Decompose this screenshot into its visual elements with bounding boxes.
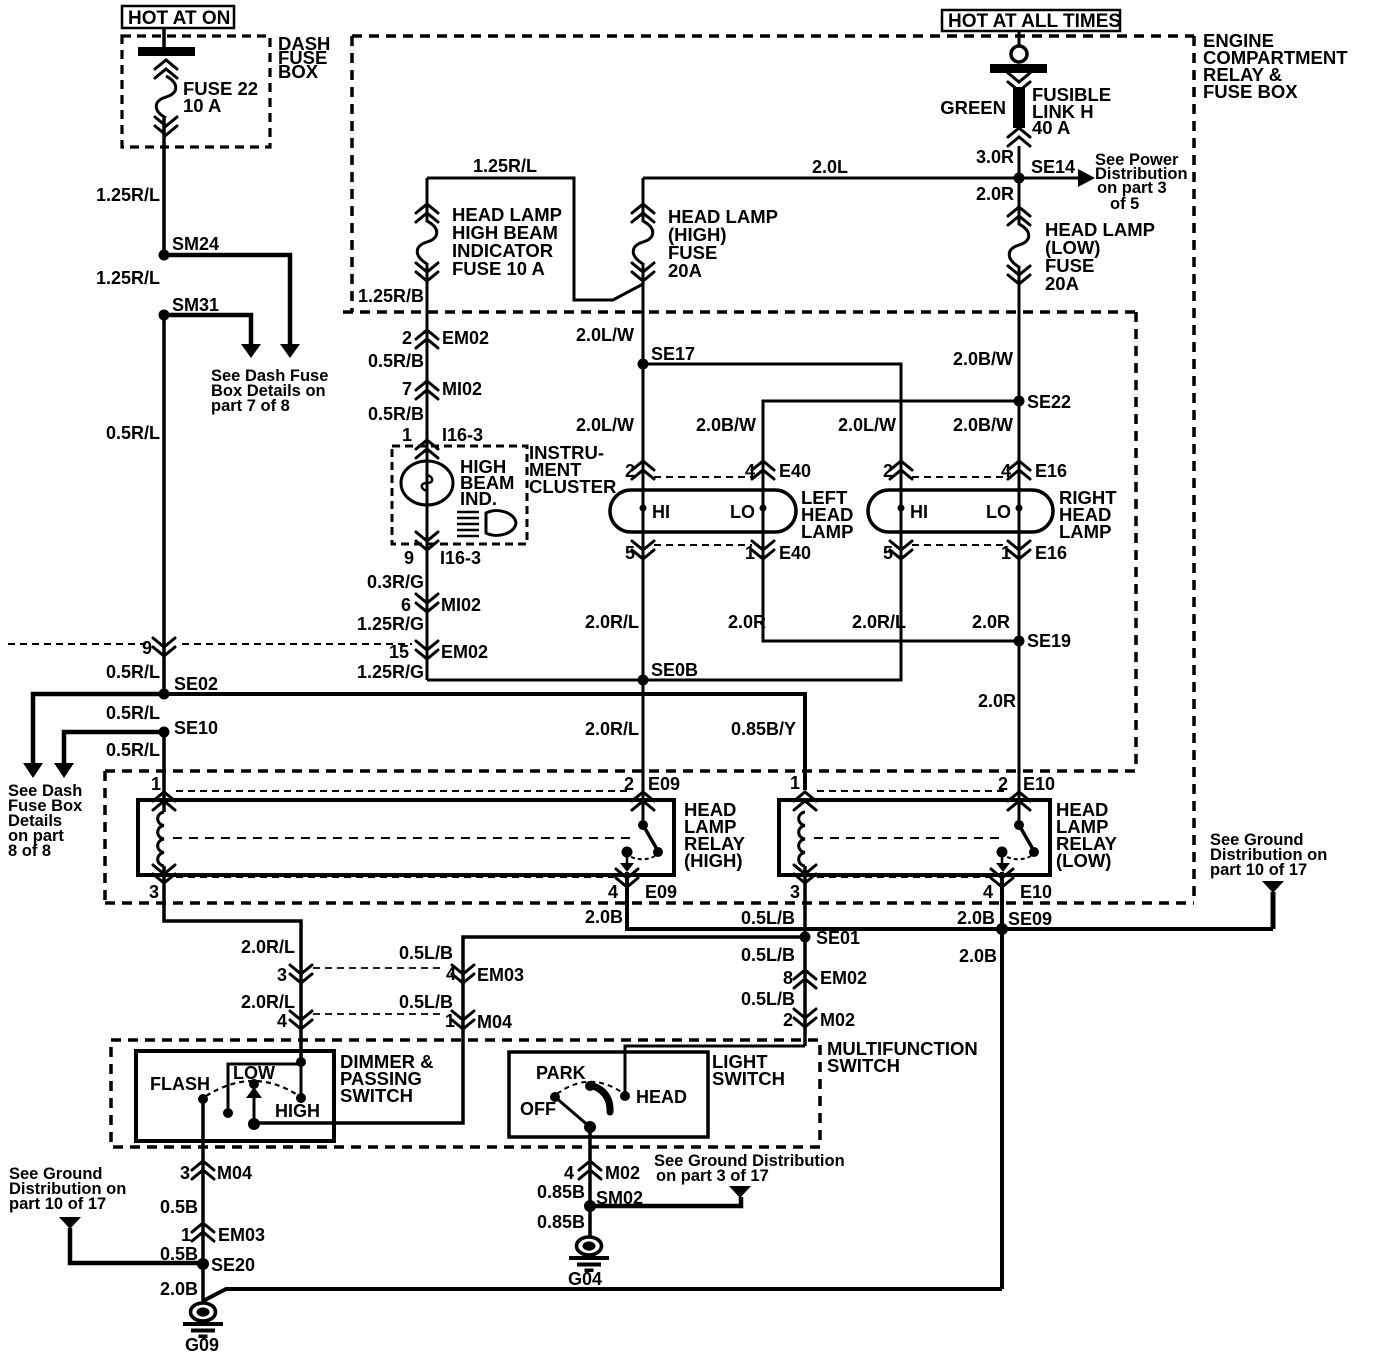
connector EM03 pin 4 — [446, 964, 524, 985]
svg-text:0.5R/B: 0.5R/B — [368, 351, 424, 371]
wire 2.0B E10 pin4 down through SE09 to bottom rail — [1000, 872, 1004, 1289]
svg-text:6: 6 — [401, 595, 411, 615]
node SE17 — [638, 359, 649, 370]
svg-text:1.25R/L: 1.25R/L — [96, 268, 160, 288]
wire from HOT AT ALL TIMES — [1018, 31, 1021, 46]
svg-text:MI02: MI02 — [441, 595, 481, 615]
svg-text:2.0B/W: 2.0B/W — [953, 349, 1013, 369]
svg-text:3.0R: 3.0R — [976, 147, 1014, 167]
arrow to ground distribution (right) — [1262, 881, 1284, 929]
svg-text:LAMP: LAMP — [801, 521, 853, 542]
head lamp indicator icon — [457, 511, 516, 536]
svg-text:0.5R/B: 0.5R/B — [368, 404, 424, 424]
svg-text:EM03: EM03 — [477, 965, 524, 985]
dash fuse box (dashed) — [122, 36, 270, 147]
svg-text:SE14: SE14 — [1031, 157, 1075, 177]
svg-text:E16: E16 — [1035, 543, 1067, 563]
note see power distribution part 3 of 5 — [1095, 151, 1188, 213]
svg-text:E09: E09 — [648, 774, 680, 794]
instrument cluster box (dashed) — [392, 446, 527, 544]
node SE02 — [159, 689, 170, 700]
wire left lamp LO return to SE19 — [763, 401, 1019, 641]
power tag HOT AT ON — [122, 6, 234, 29]
wire SM24 branch arrow — [164, 255, 300, 358]
dimmer wiper arm with arrow — [246, 1079, 262, 1130]
svg-text:SE02: SE02 — [174, 674, 218, 694]
svg-text:SE20: SE20 — [211, 1255, 255, 1275]
wire SE01 rail to dimmer feed — [255, 937, 805, 1123]
svg-text:3: 3 — [180, 1163, 190, 1183]
node SE19 — [1014, 636, 1025, 647]
label LEFT HEAD LAMP — [801, 487, 853, 542]
label FUSE 22 10 A — [183, 78, 258, 116]
connector link dashed E10 top — [817, 790, 1006, 792]
svg-text:M02: M02 — [820, 1010, 855, 1030]
wire FLASH contact to ground connector — [201, 1099, 205, 1302]
svg-text:0.5R/L: 0.5R/L — [106, 423, 160, 443]
svg-text:20A: 20A — [1045, 273, 1079, 294]
connector link dashed E40 top — [654, 476, 752, 478]
relay LOW box — [779, 800, 1050, 875]
svg-text:E16: E16 — [1035, 461, 1067, 481]
svg-text:2.0L/W: 2.0L/W — [838, 415, 896, 435]
node SE01 — [800, 932, 811, 943]
svg-text:SM24: SM24 — [172, 234, 219, 254]
fuse: head lamp (high) fuse 20A — [632, 178, 654, 364]
svg-text:HIGH: HIGH — [275, 1101, 320, 1121]
svg-text:5: 5 — [625, 543, 635, 563]
svg-text:E10: E10 — [1023, 774, 1055, 794]
svg-text:2.0R/L: 2.0R/L — [241, 937, 295, 957]
multifunction switch box (dashed) — [111, 1040, 820, 1147]
wire 3.0R link to SE14 — [1018, 146, 1021, 178]
connector link dashed M04 — [313, 1013, 444, 1015]
svg-text:SWITCH: SWITCH — [340, 1085, 413, 1106]
connector E09 pin 2 — [624, 774, 680, 810]
svg-text:SE09: SE09 — [1008, 909, 1052, 929]
node SM31 — [159, 310, 170, 321]
svg-text:SE01: SE01 — [816, 928, 860, 948]
svg-text:I16-3: I16-3 — [442, 425, 483, 445]
connector E40 pin 1 — [745, 541, 811, 563]
wire SE17 to right lamp HI — [643, 364, 901, 461]
label DASH FUSE BOX — [278, 33, 330, 82]
left head lamp body — [610, 490, 796, 532]
contact FLASH — [198, 1094, 208, 1104]
svg-text:M02: M02 — [605, 1163, 640, 1183]
relay LOW switch contacts — [996, 820, 1039, 872]
wire SE10 left branch arrow — [54, 732, 164, 778]
connector E16 pin 5 — [883, 541, 912, 563]
bus bar — [990, 64, 1047, 73]
svg-text:4: 4 — [983, 882, 993, 902]
wire SE02 left branch arrow — [23, 694, 164, 778]
svg-text:1.25R/G: 1.25R/G — [357, 662, 424, 682]
svg-text:SE0B: SE0B — [651, 660, 698, 680]
svg-text:IND.: IND. — [460, 488, 497, 509]
connector link dashed E16 bottom — [912, 544, 1008, 546]
connector EM02 pin 15 — [389, 641, 488, 662]
connector E10 pin 1 — [790, 773, 816, 810]
wire SE22 to left lamp LO — [763, 401, 1019, 461]
dimmer internal wiring — [223, 1057, 306, 1118]
fuse F22 symbol — [155, 60, 177, 135]
svg-text:0.5L/B: 0.5L/B — [399, 943, 453, 963]
fusible link H element — [1008, 73, 1030, 146]
labels FLASH LOW HIGH — [150, 1063, 320, 1121]
svg-text:4: 4 — [608, 882, 618, 902]
svg-text:1: 1 — [181, 1225, 191, 1245]
labels wire sizes below lamps — [585, 612, 1010, 632]
svg-text:4: 4 — [564, 1163, 574, 1183]
high beam indicator bulb — [401, 461, 453, 505]
svg-text:CLUSTER: CLUSTER — [529, 476, 616, 497]
wire SM02 to ground arrow — [590, 1186, 751, 1206]
svg-text:3: 3 — [277, 965, 287, 985]
light switch dashed arc — [557, 1082, 623, 1094]
svg-text:2.0R/L: 2.0R/L — [852, 612, 906, 632]
svg-text:0.85B: 0.85B — [537, 1212, 585, 1232]
bottom 2.0B rail with jog — [203, 1289, 1002, 1301]
connector link dashed EM03 — [313, 967, 444, 969]
svg-text:0.3R/G: 0.3R/G — [367, 572, 424, 592]
wire M02 pin2 into light switch HEAD — [625, 1046, 805, 1093]
power tag HOT AT ALL TIMES — [942, 10, 1121, 32]
svg-text:of 5: of 5 — [1110, 195, 1139, 213]
svg-text:EM02: EM02 — [442, 328, 489, 348]
connector I16-3 pin 1 — [402, 425, 483, 458]
svg-text:M04: M04 — [477, 1012, 512, 1032]
svg-text:I16-3: I16-3 — [440, 548, 481, 568]
svg-text:5: 5 — [883, 543, 893, 563]
svg-text:2.0B: 2.0B — [959, 946, 997, 966]
arrow from ground distribution (left) — [59, 1217, 203, 1263]
svg-text:8: 8 — [783, 968, 793, 988]
svg-text:G09: G09 — [185, 1335, 219, 1355]
connector link dashed E10 bottom — [817, 876, 990, 878]
engine compartment relay & fuse box (dashed outline) — [105, 36, 1194, 903]
connector link dashed E40 bottom — [654, 544, 752, 546]
labels wire sizes above lamps — [576, 415, 1013, 435]
svg-text:OFF: OFF — [520, 1099, 556, 1119]
wire 2.0L rail — [643, 177, 1019, 180]
svg-text:PARK: PARK — [536, 1063, 586, 1083]
wire 1.25R/B to connector EM02 pin 2 — [426, 312, 429, 680]
wire right lamp LO feed — [1018, 401, 1021, 820]
svg-text:0.5R/L: 0.5R/L — [106, 703, 160, 723]
svg-text:part 10 of 17: part 10 of 17 — [9, 1195, 106, 1213]
connector E40 pin 2 — [625, 461, 654, 481]
connector M04 pin 3 — [180, 1161, 252, 1183]
connector E10 pin 2 — [998, 774, 1055, 810]
svg-text:EM02: EM02 — [441, 642, 488, 662]
svg-text:9: 9 — [404, 548, 414, 568]
svg-text:E40: E40 — [779, 543, 811, 563]
svg-text:2.0L/W: 2.0L/W — [576, 415, 634, 435]
wire 1.25R/L fusebox to SM24 — [162, 118, 166, 252]
svg-text:40 A: 40 A — [1032, 117, 1070, 138]
fuse: head lamp (low) fuse 20A — [1008, 178, 1030, 401]
svg-text:SWITCH: SWITCH — [712, 1068, 785, 1089]
connector E16 pin 4 — [1001, 461, 1067, 481]
light switch box — [509, 1052, 708, 1137]
svg-text:0.5L/B: 0.5L/B — [741, 989, 795, 1009]
connector M02 pin 4 — [564, 1161, 640, 1183]
node SE10 — [159, 727, 170, 738]
svg-text:SE10: SE10 — [174, 718, 218, 738]
svg-text:FUSE 10 A: FUSE 10 A — [452, 258, 545, 279]
relay LOW internal dashed link — [814, 837, 1006, 839]
svg-text:1.25R/L: 1.25R/L — [96, 185, 160, 205]
label FUSIBLE LINK H 40 A — [1032, 84, 1111, 138]
svg-text:0.85B: 0.85B — [537, 1182, 585, 1202]
svg-text:2.0B: 2.0B — [957, 908, 995, 928]
svg-text:part 10 of 17: part 10 of 17 — [1210, 861, 1307, 879]
connector boundary dashed line — [8, 643, 412, 645]
svg-text:2.0B: 2.0B — [160, 1279, 198, 1299]
svg-text:LAMP: LAMP — [1059, 521, 1111, 542]
connector link dashed E09 top — [176, 790, 630, 792]
connector link dashed E16 top — [912, 476, 1008, 478]
dimmer wiper dashed arc — [206, 1081, 299, 1096]
svg-text:1: 1 — [790, 773, 800, 793]
svg-text:SE17: SE17 — [651, 344, 695, 364]
connector EM02 pin 8 — [783, 968, 867, 988]
svg-text:2.0R: 2.0R — [976, 184, 1014, 204]
svg-text:2.0B/W: 2.0B/W — [953, 415, 1013, 435]
svg-text:2: 2 — [883, 461, 893, 481]
note see dash fuse box details part 8 of 8 — [8, 782, 83, 860]
svg-text:1.25R/B: 1.25R/B — [358, 286, 424, 306]
svg-text:9: 9 — [142, 638, 152, 658]
connector pin 9 (dash harness) — [142, 638, 175, 658]
bus bar — [138, 47, 195, 56]
label DIMMER & PASSING SWITCH — [340, 1051, 434, 1106]
relay HIGH switch contacts — [620, 820, 663, 872]
right head lamp body — [868, 490, 1053, 532]
label HIGH BEAM IND. — [460, 456, 514, 509]
connector E10 pin 4 — [983, 869, 1052, 902]
svg-text:HOT AT ON: HOT AT ON — [128, 8, 230, 29]
label RIGHT HEAD LAMP — [1059, 487, 1117, 542]
connector MI02 pin 7 — [402, 379, 482, 399]
svg-text:1.25R/L: 1.25R/L — [473, 156, 537, 176]
connector M04 pin 4 — [277, 1011, 312, 1031]
relay HIGH internal dashed link — [173, 837, 630, 839]
connector E40 pin 5 — [625, 541, 654, 563]
svg-text:2.0B: 2.0B — [585, 907, 623, 927]
note see dash fuse box details part 7 of 8 — [211, 367, 328, 415]
svg-text:0.5R/L: 0.5R/L — [106, 740, 160, 760]
svg-text:3: 3 — [790, 882, 800, 902]
note see ground distribution part 10 of 17 (left) — [9, 1165, 126, 1213]
svg-text:0.5B: 0.5B — [160, 1197, 198, 1217]
connector MI02 pin 6 — [401, 594, 481, 615]
svg-text:7: 7 — [402, 379, 412, 399]
svg-text:2.0R: 2.0R — [978, 691, 1016, 711]
svg-text:EM03: EM03 — [218, 1225, 265, 1245]
ground G04 — [568, 1237, 609, 1289]
svg-text:LO: LO — [730, 502, 755, 522]
light switch lever — [590, 1085, 610, 1112]
svg-text:on part 3 of 17: on part 3 of 17 — [656, 1167, 769, 1185]
svg-text:E09: E09 — [645, 882, 677, 902]
svg-text:0.5L/B: 0.5L/B — [741, 908, 795, 928]
svg-text:GREEN: GREEN — [940, 97, 1006, 118]
svg-text:2.0L/W: 2.0L/W — [576, 325, 634, 345]
node SE22 — [1014, 396, 1025, 407]
relay HIGH box — [138, 800, 674, 875]
arrow to power distribution — [1019, 169, 1095, 187]
note see ground distribution part 3 of 17 (mid) — [654, 1152, 845, 1185]
svg-text:2.0R/L: 2.0R/L — [241, 992, 295, 1012]
connector E09 pin 3 — [149, 865, 175, 902]
label ENGINE COMPARTMENT RELAY & FUSE BOX — [1203, 30, 1348, 102]
svg-text:0.5L/B: 0.5L/B — [741, 945, 795, 965]
svg-text:2.0B/W: 2.0B/W — [696, 415, 756, 435]
svg-text:8 of 8: 8 of 8 — [8, 842, 51, 860]
node SE14 — [1014, 173, 1025, 184]
svg-text:E10: E10 — [1020, 882, 1052, 902]
svg-text:LO: LO — [986, 502, 1011, 522]
wire left lamp HI feed — [642, 364, 645, 820]
svg-text:BOX: BOX — [278, 61, 319, 82]
label HEAD LAMP HIGH BEAM INDICATOR FUSE 10 A — [452, 204, 562, 279]
labels OFF PARK HEAD — [520, 1063, 687, 1119]
svg-text:(HIGH): (HIGH) — [684, 850, 743, 871]
svg-text:E40: E40 — [779, 461, 811, 481]
svg-text:part 7 of 8: part 7 of 8 — [211, 397, 290, 415]
label HEAD LAMP RELAY (HIGH) — [684, 799, 746, 871]
fuse: head lamp high beam indicator fuse 10 A — [416, 178, 438, 312]
svg-text:4: 4 — [277, 1011, 287, 1031]
label INSTRU-MENT CLUSTER — [529, 442, 616, 497]
wire 0.5R/L SM31 down to connector 9 — [162, 315, 166, 694]
svg-text:2: 2 — [402, 328, 412, 348]
fusible link H terminal ring — [1011, 46, 1027, 62]
ground G09 — [183, 1303, 223, 1355]
wire 0.5L/B relay low pin3 to SE01 — [803, 866, 807, 1046]
svg-text:SE19: SE19 — [1027, 631, 1071, 651]
svg-text:2.0R: 2.0R — [972, 612, 1010, 632]
node SM24 — [159, 250, 170, 261]
svg-text:SWITCH: SWITCH — [827, 1055, 900, 1076]
label HEAD LAMP RELAY (LOW) — [1056, 799, 1118, 871]
svg-text:1: 1 — [151, 774, 161, 794]
svg-text:3: 3 — [149, 882, 159, 902]
svg-text:FLASH: FLASH — [150, 1074, 210, 1094]
svg-text:M04: M04 — [217, 1163, 252, 1183]
wire SE02 rail to relay low coil — [164, 694, 805, 790]
node SE20 — [197, 1258, 209, 1270]
label MULTIFUNCTION SWITCH — [827, 1038, 978, 1076]
connector EM02 pin 2 — [402, 328, 489, 348]
connector E16 pin 2 — [883, 461, 912, 481]
connector E16 pin 1 — [1001, 541, 1067, 563]
label HEAD LAMP (HIGH) FUSE 20A — [668, 206, 778, 281]
svg-text:HI: HI — [910, 502, 928, 522]
connector E10 pin 3 — [790, 865, 816, 902]
svg-text:2.0R: 2.0R — [728, 612, 766, 632]
wire 1.25R/L rail to indicator fuse — [427, 178, 643, 300]
svg-text:0.5L/B: 0.5L/B — [399, 992, 453, 1012]
connector M04 pin 1 — [445, 1011, 512, 1032]
wire 2.0R/L relay high pin3 to dimmer switch — [164, 866, 301, 1062]
wire 2.0B E09 pin4 rail to ground arrow — [627, 872, 1273, 929]
light switch contacts — [550, 1081, 630, 1133]
svg-text:(LOW): (LOW) — [1056, 850, 1111, 871]
svg-text:2.0L: 2.0L — [812, 157, 848, 177]
svg-text:SE22: SE22 — [1027, 392, 1071, 412]
connector E40 pin 4 — [745, 461, 811, 481]
connector E09 pin 4 — [608, 869, 677, 902]
connector M02 pin 2 — [783, 1009, 855, 1030]
svg-text:2.0R/L: 2.0R/L — [585, 612, 639, 632]
svg-text:1: 1 — [445, 1011, 455, 1031]
svg-text:2.0R/L: 2.0R/L — [585, 719, 639, 739]
label HEAD LAMP (LOW) FUSE 20A — [1045, 219, 1155, 294]
node SE09 — [996, 923, 1008, 935]
svg-text:20A: 20A — [668, 260, 702, 281]
svg-text:2: 2 — [625, 461, 635, 481]
dimmer & passing switch box — [136, 1051, 334, 1141]
svg-text:SM31: SM31 — [172, 295, 219, 315]
svg-text:0.85B/Y: 0.85B/Y — [731, 719, 796, 739]
svg-text:MI02: MI02 — [442, 379, 482, 399]
svg-text:2: 2 — [783, 1010, 793, 1030]
svg-text:HI: HI — [652, 502, 670, 522]
wire right lamp HI return to SE08 rail — [427, 364, 901, 680]
node SE08 — [638, 675, 649, 686]
svg-text:HEAD: HEAD — [636, 1087, 687, 1107]
svg-text:1: 1 — [402, 425, 412, 445]
connector EM03 pin 1 — [181, 1223, 265, 1245]
connector I16-3 pin 9 — [404, 532, 481, 568]
relay HIGH coil — [158, 812, 164, 866]
svg-text:EM02: EM02 — [820, 968, 867, 988]
label LIGHT SWITCH — [712, 1051, 785, 1089]
wire SM31 branch arrow — [164, 315, 261, 358]
svg-text:1: 1 — [745, 543, 755, 563]
wire SE10 down to relay pin 1 — [162, 732, 166, 812]
svg-text:4: 4 — [745, 461, 755, 481]
svg-text:FUSE BOX: FUSE BOX — [1203, 81, 1298, 102]
connector link dashed E09 bottom — [176, 876, 614, 878]
svg-text:1.25R/G: 1.25R/G — [357, 614, 424, 634]
svg-text:4: 4 — [446, 964, 456, 984]
connector EM03 pin 3 — [277, 965, 312, 985]
wire from HOT AT ON into fuse box — [162, 28, 166, 47]
svg-text:G04: G04 — [568, 1269, 602, 1289]
svg-text:10 A: 10 A — [183, 95, 221, 116]
relay LOW coil — [799, 812, 805, 866]
node SM02 — [584, 1200, 596, 1212]
svg-text:HOT AT ALL TIMES: HOT AT ALL TIMES — [948, 11, 1121, 32]
connector E09 pin 1 — [151, 774, 175, 810]
svg-text:0.5R/L: 0.5R/L — [106, 662, 160, 682]
wire light switch pivot to M02 pin 4 — [588, 1127, 592, 1236]
note see ground distribution part 10 of 17 (right) — [1210, 831, 1327, 879]
